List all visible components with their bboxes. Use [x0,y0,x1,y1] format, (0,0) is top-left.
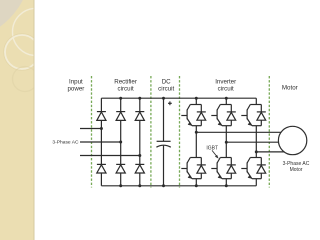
svg-text:Inputpower: Inputpower [67,78,84,92]
wire phase input S [80,141,121,143]
wire inverter leg2 [225,98,227,104]
wire phase input R [80,128,101,130]
diode D1 top leg1 [97,112,106,121]
wire inverter output W [256,151,284,153]
diode D3 top leg3 [135,112,144,121]
transistor Q4 IGBT with freewheel diode (bottom leg1) [181,158,206,179]
wire DC+ top bus [101,97,256,99]
svg-text:Rectifiercircuit: Rectifiercircuit [114,78,137,92]
transistor Q1 IGBT with freewheel diode (top leg1) [181,105,206,126]
divider DC/inverter [179,76,181,188]
wire DC- bottom bus [101,185,256,187]
diode D6 bottom leg3 [135,164,144,173]
sidebar [0,0,60,240]
section labels [67,78,297,92]
capacitor C1 plates [157,140,171,142]
transistor Q3 IGBT with freewheel diode (top leg3) [241,105,266,126]
wire phase input T [80,155,140,157]
diode D4 bottom leg1 [97,164,106,173]
capacitor C1 leads [163,98,165,141]
diode D2 top leg2 [116,112,125,121]
wire inverter output V [226,141,278,143]
svg-text:Motor: Motor [282,84,298,91]
capacitor C1 polarity + [168,101,172,105]
motor M circle [278,126,306,154]
section divider dashed lines [92,76,270,188]
wire inverter leg1 upper [195,98,197,104]
transistor Q6 IGBT with freewheel diode (bottom leg3) [241,158,266,179]
wire inverter leg3 [255,98,257,104]
svg-text:3-Phase AC: 3-Phase AC [52,140,79,146]
label IGBT with leader arrow [206,145,218,158]
diode D5 bottom leg2 [116,164,125,173]
transistor Q5 IGBT with freewheel diode (bottom leg2) [211,158,236,179]
inverter legs and modules [196,98,256,186]
divider inverter/motor [268,76,270,188]
junction dots [100,97,258,188]
divider input/rectifier [91,76,93,188]
wire inverter output U [196,131,281,133]
wire rectifier leg 3 [139,98,141,111]
wire rectifier leg 2 [120,98,122,111]
wire rectifier leg 1 [100,98,102,111]
divider rectifier/DC [150,76,152,188]
transistor Q2 IGBT with freewheel diode (top leg2) [211,105,236,126]
svg-text:Invertercircuit: Invertercircuit [215,78,236,92]
